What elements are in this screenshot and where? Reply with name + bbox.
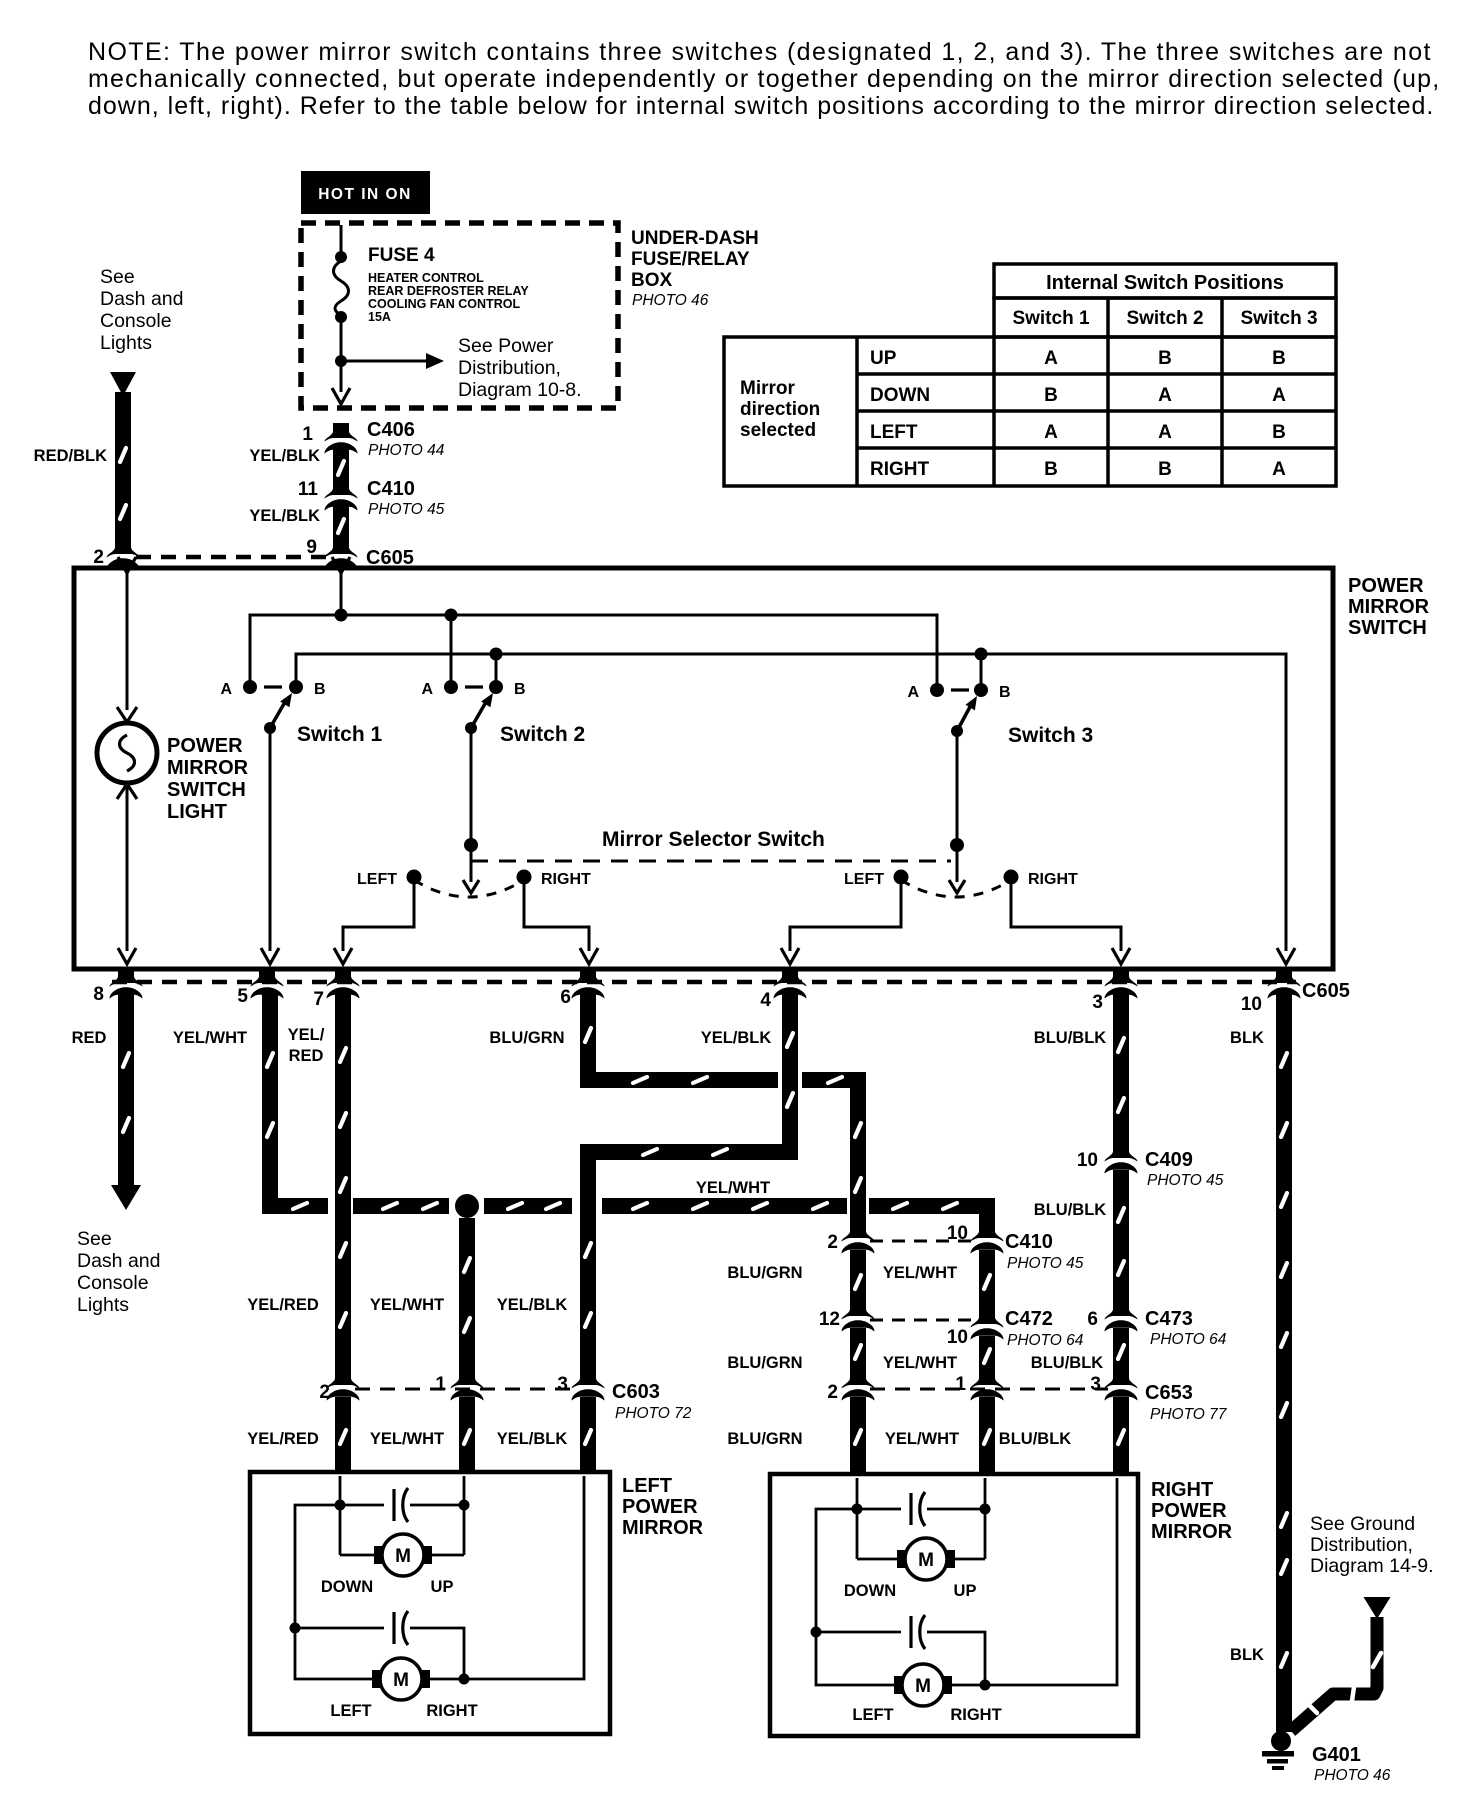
svg-text:Switch 2: Switch 2	[1126, 308, 1203, 329]
svg-text:YEL/WHT: YEL/WHT	[370, 1430, 444, 1448]
wires C603 to left mirror	[335, 1397, 351, 1474]
switch 2 contact A	[444, 680, 458, 694]
wire selector2 LEFT to pin 7	[343, 877, 414, 951]
junction node selector switch 3	[950, 838, 964, 852]
connector C603 pin 1	[451, 1370, 484, 1401]
connector C605 pin 2	[107, 539, 140, 570]
svg-text:UP: UP	[954, 1582, 977, 1600]
svg-text:A: A	[421, 681, 433, 698]
svg-text:10: 10	[1241, 994, 1262, 1015]
switch 2 A-B dashed link	[465, 685, 483, 688]
svg-text:PHOTO 64: PHOTO 64	[1150, 1331, 1227, 1348]
svg-text:B: B	[1272, 422, 1286, 443]
connector C472 pin 12	[842, 1301, 875, 1332]
table header Internal Switch Positions	[994, 264, 1336, 298]
switch 3 pivot node	[951, 725, 963, 737]
svg-text:YEL/BLK: YEL/BLK	[497, 1296, 568, 1314]
svg-text:BLK: BLK	[1230, 1029, 1264, 1047]
switch 1 contact A	[243, 680, 257, 694]
connector C603 pin 3	[572, 1370, 605, 1401]
right mirror left rail	[816, 1509, 895, 1685]
lamp bottom arrowhead	[117, 784, 137, 799]
arrow from dash lights	[110, 372, 136, 396]
svg-text:3: 3	[1092, 992, 1103, 1013]
wire to switch light	[126, 571, 129, 710]
svg-text:YEL/RED: YEL/RED	[247, 1430, 319, 1448]
svg-text:PHOTO 45: PHOTO 45	[1147, 1172, 1224, 1189]
svg-text:2: 2	[319, 1382, 330, 1403]
svg-text:RED/BLK: RED/BLK	[34, 447, 107, 465]
svg-text:M: M	[915, 1676, 931, 1697]
svg-text:BLU/GRN: BLU/GRN	[727, 1264, 802, 1282]
wire switch3 arm to selector	[956, 731, 959, 845]
switch 3 A-B dashed link	[951, 688, 969, 691]
wire bus2 to switch3 B	[980, 654, 983, 690]
svg-text:YEL/WHT: YEL/WHT	[885, 1430, 959, 1448]
connector C410 pin 10	[971, 1223, 1004, 1254]
svg-text:6: 6	[1087, 1309, 1098, 1330]
svg-text:7: 7	[313, 989, 324, 1010]
wire BLU/GRN C410 to C472	[850, 1250, 866, 1310]
svg-text:5: 5	[237, 986, 248, 1007]
svg-text:POWER: POWER	[167, 735, 243, 757]
svg-text:C473: C473	[1145, 1308, 1193, 1330]
svg-text:BLU/BLK: BLU/BLK	[1034, 1029, 1106, 1047]
svg-text:LIGHT: LIGHT	[167, 801, 227, 823]
svg-text:POWER: POWER	[622, 1496, 698, 1518]
svg-text:direction: direction	[740, 399, 820, 420]
lamp top arrowhead	[117, 707, 137, 722]
connector C605 pin 9	[325, 539, 358, 570]
svg-text:2: 2	[827, 1232, 838, 1253]
switch 3 contact B	[974, 683, 988, 697]
connector C409	[1105, 1143, 1138, 1174]
svg-text:BLU/BLK: BLU/BLK	[999, 1430, 1071, 1448]
dashed connector line C605 top	[136, 555, 328, 560]
svg-text:Lights: Lights	[100, 332, 152, 354]
svg-text:MIRROR: MIRROR	[622, 1517, 704, 1539]
svg-text:B: B	[514, 681, 526, 698]
svg-text:A: A	[907, 684, 919, 701]
svg-text:RIGHT: RIGHT	[870, 459, 930, 480]
svg-text:BLU/GRN: BLU/GRN	[489, 1029, 564, 1047]
svg-text:RIGHT: RIGHT	[541, 871, 591, 888]
wire bus1 to switch2 A	[450, 615, 453, 687]
switch 2 arm	[471, 702, 486, 728]
svg-text:B: B	[1272, 348, 1286, 369]
svg-text:1: 1	[435, 1374, 446, 1395]
arrow bus2 to pin 10	[1277, 948, 1295, 964]
svg-text:10: 10	[1077, 1150, 1098, 1171]
svg-text:mechanically connected, but op: mechanically connected, but operate inde…	[88, 65, 1440, 93]
connector C472 pin 10	[971, 1309, 1004, 1340]
svg-text:Lights: Lights	[77, 1294, 129, 1316]
svg-text:FUSE 4: FUSE 4	[368, 245, 435, 266]
wire bus2 to switch2 B	[495, 654, 498, 687]
bus line 1 (A contacts)	[250, 615, 937, 690]
ground G401	[1271, 1731, 1291, 1751]
junction node to power distribution	[335, 355, 347, 367]
left mirror thermal protector 2	[295, 1627, 384, 1630]
svg-text:See Power: See Power	[458, 335, 554, 357]
left mirror left/right motor M	[372, 1670, 385, 1688]
svg-text:YEL/WHT: YEL/WHT	[173, 1029, 247, 1047]
fuse F4 element	[334, 261, 349, 315]
svg-text:10: 10	[947, 1327, 968, 1348]
svg-text:BLU/GRN: BLU/GRN	[727, 1354, 802, 1372]
right mirror junction node 4	[980, 1680, 991, 1691]
wire BLK pin 10	[1276, 992, 1292, 1732]
power mirror switch light lamp	[97, 723, 157, 783]
svg-text:C605: C605	[1302, 980, 1350, 1002]
dashed connector line C653	[870, 1388, 1108, 1391]
wire switch light to pin 8	[126, 784, 129, 951]
svg-text:BLU/BLK: BLU/BLK	[1034, 1201, 1106, 1219]
wire BLK branch to G401	[1291, 1617, 1377, 1731]
svg-text:B: B	[999, 684, 1011, 701]
svg-text:MIRROR: MIRROR	[167, 757, 249, 779]
svg-text:M: M	[918, 1550, 934, 1571]
svg-text:Console: Console	[77, 1272, 149, 1294]
switch 1 A-B dashed link	[264, 685, 282, 688]
svg-text:BLU/BLK: BLU/BLK	[1031, 1354, 1103, 1372]
svg-text:A: A	[1158, 385, 1172, 406]
svg-text:YEL/BLK: YEL/BLK	[701, 1029, 772, 1047]
right mirror left/right motor M	[894, 1676, 907, 1694]
junction node bus1 at x341	[335, 609, 348, 622]
wire pin9 to bus	[340, 571, 343, 615]
left mirror right rail	[430, 1476, 584, 1679]
svg-text:LEFT: LEFT	[357, 871, 397, 888]
svg-text:B: B	[1044, 459, 1058, 480]
svg-text:LEFT: LEFT	[870, 422, 918, 443]
under-dash fuse/relay box (dashed)	[301, 223, 618, 408]
right mirror junction node 3	[811, 1627, 822, 1638]
svg-text:Switch 1: Switch 1	[297, 723, 383, 746]
junction node above fuse 4	[335, 251, 347, 263]
switch 1 contact B	[289, 680, 303, 694]
svg-text:RIGHT: RIGHT	[1028, 871, 1078, 888]
svg-text:15A: 15A	[368, 310, 391, 324]
svg-text:3: 3	[1090, 1374, 1101, 1395]
connector C410 pin 2	[842, 1223, 875, 1254]
svg-text:See: See	[100, 266, 135, 288]
svg-text:BOX: BOX	[631, 270, 673, 291]
svg-text:BLK: BLK	[1230, 1646, 1264, 1664]
connector C605 pin 4	[774, 968, 807, 999]
arrow to pin 5	[261, 948, 279, 964]
svg-text:Dash and: Dash and	[77, 1250, 160, 1272]
arrow from ground distribution	[1364, 1597, 1391, 1619]
svg-text:Console: Console	[100, 310, 172, 332]
svg-text:YEL/BLK: YEL/BLK	[249, 447, 320, 465]
svg-text:UP: UP	[870, 348, 897, 369]
connector C605 pin 7	[327, 968, 360, 999]
svg-text:selected: selected	[740, 420, 816, 441]
svg-text:A: A	[220, 681, 232, 698]
table switch name row	[994, 298, 1336, 337]
arrow to pin 8	[118, 948, 136, 964]
svg-text:B: B	[1158, 459, 1172, 480]
svg-text:PHOTO 45: PHOTO 45	[1007, 1255, 1084, 1272]
power mirror switch box	[74, 568, 1333, 969]
svg-text:PHOTO 44: PHOTO 44	[368, 442, 445, 459]
svg-text:YEL/WHT: YEL/WHT	[696, 1179, 770, 1197]
left mirror up/down motor leads	[339, 1505, 342, 1555]
wire YEL/BLK C410 to C605	[333, 506, 349, 545]
svg-text:8: 8	[93, 984, 104, 1005]
svg-text:G401: G401	[1312, 1744, 1361, 1766]
svg-text:LEFT: LEFT	[844, 871, 884, 888]
wire BLU/GRN pin 6	[580, 992, 596, 1088]
junction node bus2 at x981	[975, 648, 988, 661]
left mirror thermal protector 1	[340, 1504, 384, 1507]
connector C653 pin 1	[971, 1370, 1004, 1401]
svg-text:UP: UP	[431, 1578, 454, 1596]
wire YEL/RED pin 7 to C603	[335, 992, 351, 1378]
svg-text:C603: C603	[612, 1381, 660, 1403]
wire YEL/BLK C406 to C410	[333, 449, 349, 488]
svg-text:C653: C653	[1145, 1382, 1193, 1404]
svg-text:FUSE/RELAY: FUSE/RELAY	[631, 249, 750, 270]
svg-text:Switch 1: Switch 1	[1012, 308, 1090, 329]
wire BLU/GRN C472 to C653	[850, 1328, 866, 1378]
svg-text:C410: C410	[1005, 1231, 1053, 1253]
left mirror junction node 1	[335, 1500, 346, 1511]
wire selector3 LEFT to pin 4	[790, 877, 901, 951]
selector switch2 RIGHT contact	[517, 870, 532, 885]
left mirror junction node 4	[459, 1674, 470, 1685]
switch 3 contact A	[930, 683, 944, 697]
svg-text:SWITCH: SWITCH	[1348, 617, 1427, 639]
svg-text:HOT IN ON: HOT IN ON	[318, 186, 412, 203]
svg-text:C406: C406	[367, 419, 415, 441]
svg-text:Diagram 10-8.: Diagram 10-8.	[458, 379, 582, 401]
right mirror up/down motor M	[897, 1550, 910, 1568]
wire switch2 arm to selector	[470, 728, 473, 845]
entry arrow pin 9 feed	[332, 557, 350, 573]
wire YEL/WHT junction to C603 pin 1	[459, 1218, 475, 1378]
svg-text:RIGHT: RIGHT	[426, 1702, 477, 1720]
svg-text:4: 4	[760, 990, 771, 1011]
wire YEL/WHT pin 5	[262, 992, 278, 1214]
svg-text:B: B	[314, 681, 326, 698]
connector C406	[325, 423, 358, 454]
svg-text:1: 1	[302, 424, 313, 445]
selector switch3 dashed arc	[901, 880, 1011, 897]
svg-text:YEL/RED: YEL/RED	[247, 1296, 319, 1314]
selector mechanical dashed link	[471, 860, 951, 863]
wire RED pin 8	[118, 992, 134, 1186]
svg-text:YEL/WHT: YEL/WHT	[883, 1354, 957, 1372]
svg-text:6: 6	[560, 987, 571, 1008]
svg-text:2: 2	[827, 1382, 838, 1403]
svg-text:C410: C410	[367, 478, 415, 500]
svg-text:YEL/: YEL/	[288, 1026, 325, 1044]
svg-text:RIGHT: RIGHT	[1151, 1479, 1213, 1501]
bus line 2 (B contacts) to pin 10	[296, 654, 1286, 951]
left power mirror box	[250, 1472, 610, 1734]
dashed connector line C472	[870, 1319, 975, 1322]
svg-text:NOTE: The power mirror switch: NOTE: The power mirror switch contains t…	[88, 38, 1432, 66]
svg-text:PHOTO 72: PHOTO 72	[615, 1405, 692, 1422]
svg-text:Mirror: Mirror	[740, 378, 796, 399]
svg-text:C472: C472	[1005, 1308, 1053, 1330]
svg-text:POWER: POWER	[1151, 1500, 1227, 1522]
svg-text:PHOTO 64: PHOTO 64	[1007, 1332, 1084, 1349]
svg-text:Mirror Selector Switch: Mirror Selector Switch	[602, 828, 825, 851]
svg-text:YEL/WHT: YEL/WHT	[883, 1264, 957, 1282]
right mirror right rail	[952, 1478, 1117, 1685]
selector arrow switch 3	[956, 845, 959, 882]
wire BLU/BLK C653 to right mirror	[1113, 1397, 1129, 1476]
svg-text:RED: RED	[72, 1029, 107, 1047]
svg-text:PHOTO 46: PHOTO 46	[632, 292, 709, 309]
svg-text:A: A	[1044, 422, 1058, 443]
svg-text:down, left, right). Refer to t: down, left, right). Refer to the table b…	[88, 92, 1434, 120]
wire selector3 RIGHT to pin 3	[1011, 877, 1121, 951]
svg-text:HEATER CONTROL: HEATER CONTROL	[368, 271, 484, 285]
connector C410 (top)	[325, 480, 358, 511]
right mirror junction node 2	[980, 1504, 991, 1515]
svg-text:12: 12	[819, 1309, 840, 1330]
svg-text:Distribution,: Distribution,	[458, 357, 561, 379]
left mirror up/down motor M	[374, 1546, 387, 1564]
arrow to see power distribution	[341, 360, 426, 363]
svg-text:YEL/BLK: YEL/BLK	[249, 507, 320, 525]
wire BLU/BLK C473 to C653	[1113, 1328, 1129, 1378]
svg-text:REAR DEFROSTER RELAY: REAR DEFROSTER RELAY	[368, 284, 529, 298]
connector C473	[1105, 1301, 1138, 1332]
wire YEL/WHT C653 to right mirror	[979, 1397, 995, 1476]
dashed connector line C410	[870, 1240, 975, 1243]
svg-text:Switch 2: Switch 2	[500, 723, 585, 746]
wire switch1 to pin 5	[269, 728, 272, 951]
svg-text:C409: C409	[1145, 1149, 1193, 1171]
wire from hot feed into fuse	[340, 225, 343, 253]
svg-text:M: M	[395, 1546, 411, 1567]
switch 3 arm	[957, 705, 971, 731]
svg-text:COOLING FAN CONTROL: COOLING FAN CONTROL	[368, 297, 520, 311]
left mirror junction node 2	[459, 1500, 470, 1511]
svg-text:See: See	[77, 1228, 112, 1250]
svg-text:LEFT: LEFT	[622, 1475, 672, 1497]
connector C605 pin 8	[110, 968, 143, 999]
switch 2 contact B	[489, 680, 503, 694]
wire BLU/BLK C409 to C473	[1113, 1170, 1129, 1310]
svg-text:3: 3	[557, 1374, 568, 1395]
table body	[724, 337, 1336, 486]
svg-text:Internal Switch Positions: Internal Switch Positions	[1046, 272, 1284, 294]
svg-text:MIRROR: MIRROR	[1151, 1521, 1233, 1543]
junction node bus2 at x496	[490, 648, 503, 661]
connector C653 pin 3	[1105, 1370, 1138, 1401]
selector switch3 LEFT contact	[894, 870, 909, 885]
svg-text:PHOTO 46: PHOTO 46	[1314, 1767, 1391, 1784]
svg-text:UNDER-DASH: UNDER-DASH	[631, 228, 759, 249]
dashed connector line C605 bottom	[112, 980, 1296, 985]
svg-text:RED: RED	[289, 1047, 324, 1065]
right mirror thermal protector 1	[857, 1508, 901, 1511]
svg-text:See Ground: See Ground	[1310, 1513, 1415, 1535]
selector switch3 RIGHT contact	[1004, 870, 1019, 885]
connector C605 pin 6	[572, 968, 605, 999]
left mirror junction node 3	[290, 1623, 301, 1634]
wire YEL/WHT distribution bar	[353, 1198, 449, 1214]
svg-text:Switch 3: Switch 3	[1240, 308, 1317, 329]
svg-text:B: B	[1044, 385, 1058, 406]
svg-text:YEL/WHT: YEL/WHT	[370, 1296, 444, 1314]
wire BLU/GRN C653 to right mirror	[850, 1397, 866, 1476]
svg-text:A: A	[1272, 459, 1286, 480]
junction node selector switch 2	[464, 838, 478, 852]
entry arrow pin 2 feed	[118, 557, 136, 573]
svg-text:2: 2	[93, 547, 104, 568]
right power mirror box	[770, 1474, 1138, 1736]
right mirror junction node 1	[852, 1504, 863, 1515]
svg-text:PHOTO 45: PHOTO 45	[368, 501, 445, 518]
svg-text:DOWN: DOWN	[870, 385, 930, 406]
switch 1 arm	[270, 702, 285, 728]
svg-text:A: A	[1044, 348, 1058, 369]
dashed connector line C603	[355, 1388, 576, 1391]
svg-text:Dash and: Dash and	[100, 288, 183, 310]
wire YEL/WHT C472 to C653	[979, 1336, 995, 1378]
svg-text:PHOTO 77: PHOTO 77	[1150, 1406, 1228, 1423]
wire BLU/BLK pin 3 to C409	[1113, 992, 1129, 1150]
svg-text:BLU/GRN: BLU/GRN	[727, 1430, 802, 1448]
wire YEL/WHT C410 to C472	[979, 1250, 995, 1310]
svg-text:11: 11	[298, 479, 319, 500]
arrowhead into C406	[332, 388, 350, 404]
left mirror left rail	[295, 1505, 372, 1679]
svg-text:A: A	[1158, 422, 1172, 443]
svg-text:Diagram 14-9.: Diagram 14-9.	[1310, 1555, 1434, 1577]
svg-text:POWER: POWER	[1348, 575, 1424, 597]
wire YEL/BLK pin 4	[782, 992, 798, 1160]
connector C653 pin 2	[842, 1370, 875, 1401]
selector switch2 LEFT contact	[407, 870, 422, 885]
svg-text:DOWN: DOWN	[321, 1578, 373, 1596]
wire RED/BLK to C605 pin 2	[115, 392, 131, 545]
svg-text:SWITCH: SWITCH	[167, 779, 246, 801]
svg-text:LEFT: LEFT	[852, 1706, 893, 1724]
connector C605 pin 5	[251, 968, 284, 999]
svg-text:YEL/BLK: YEL/BLK	[497, 1430, 568, 1448]
svg-text:DOWN: DOWN	[844, 1582, 896, 1600]
switch 2 pivot node	[465, 722, 477, 734]
svg-text:LEFT: LEFT	[330, 1702, 371, 1720]
svg-text:M: M	[393, 1670, 409, 1691]
switch 1 pivot node	[264, 722, 276, 734]
right mirror thermal protector 2	[816, 1631, 901, 1634]
selector arrow switch 2	[470, 845, 473, 882]
svg-text:RIGHT: RIGHT	[950, 1706, 1001, 1724]
connector C605 pin 3	[1105, 968, 1138, 999]
svg-text:B: B	[1158, 348, 1172, 369]
junction node below fuse 4	[335, 311, 347, 323]
svg-text:Distribution,: Distribution,	[1310, 1534, 1413, 1556]
connector C605 pin 10	[1268, 968, 1301, 999]
svg-text:MIRROR: MIRROR	[1348, 596, 1430, 618]
wire selector2 RIGHT to pin 6	[524, 877, 589, 951]
junction node bus1 at x451	[445, 609, 458, 622]
connector C603 pin 2	[327, 1370, 360, 1401]
junction node YEL/WHT bar	[455, 1194, 479, 1218]
HOT IN ON label	[301, 171, 430, 214]
svg-text:Switch 3: Switch 3	[1008, 724, 1093, 747]
wire fuse to C406	[340, 317, 343, 392]
